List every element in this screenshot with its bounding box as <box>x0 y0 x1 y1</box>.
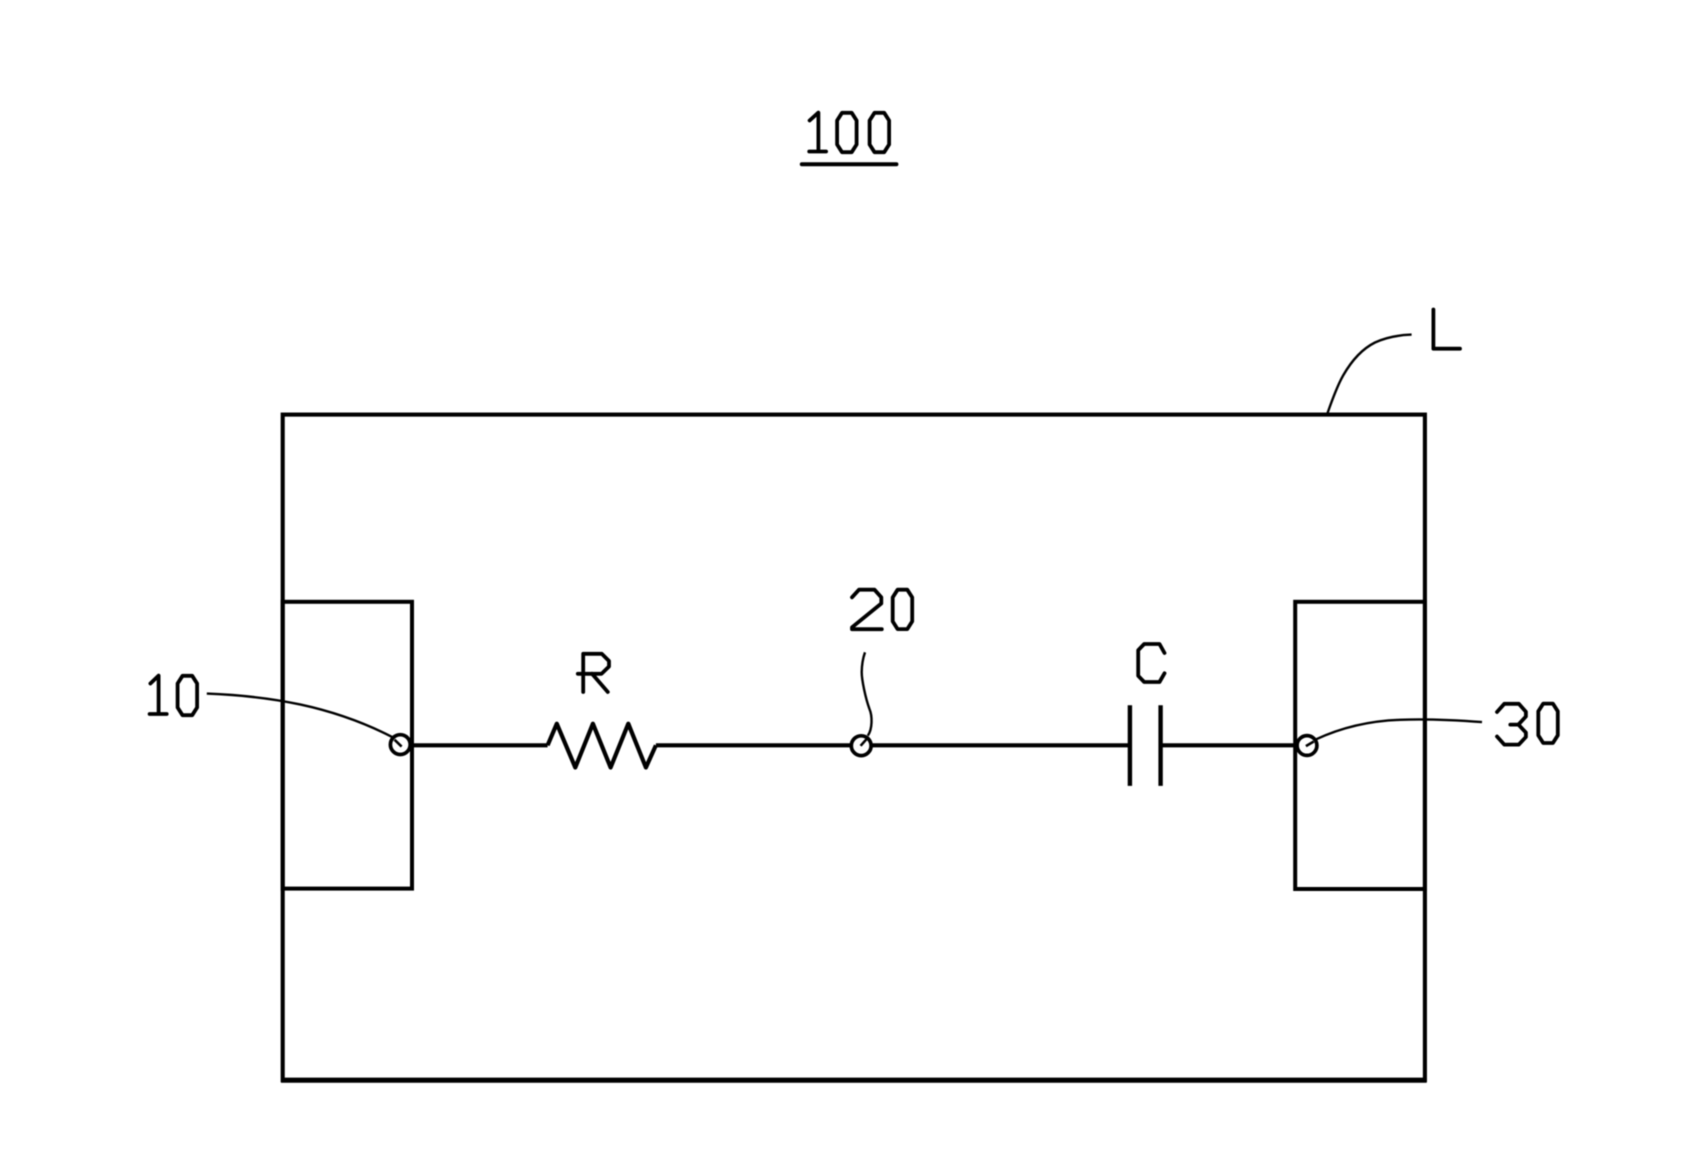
board outline L (outer rectangle) <box>283 415 1425 1081</box>
wire: node 20 to capacitor <box>872 743 1130 747</box>
wire: resistor to node 20 <box>656 743 850 747</box>
figure title 100 <box>809 113 889 153</box>
label 30 <box>1497 704 1558 745</box>
node 30 circle <box>1297 736 1317 756</box>
left electrode pad (node 10 region) <box>283 602 412 889</box>
label R <box>578 654 609 692</box>
right electrode pad (node 30 region) <box>1295 602 1425 889</box>
label 10 <box>150 676 198 716</box>
node 10 circle <box>390 735 410 755</box>
node 20 tick <box>861 739 867 746</box>
capacitor C right plate <box>1158 705 1162 786</box>
label L <box>1433 310 1460 349</box>
leader L <box>1327 335 1411 414</box>
label 20 <box>852 590 912 630</box>
wire: capacitor to node 30 <box>1161 743 1297 747</box>
label C <box>1138 644 1164 682</box>
wire: left node to resistor <box>411 743 548 747</box>
title underline <box>802 162 897 166</box>
node 20 circle <box>851 736 871 756</box>
board outline bottom edge <box>281 1078 1427 1083</box>
leader 30 <box>1316 719 1483 739</box>
leader 10 <box>207 694 393 738</box>
capacitor C left plate <box>1128 705 1132 786</box>
resistor R zigzag <box>548 724 656 768</box>
leader 20 <box>862 652 872 735</box>
node 30 tick <box>1306 742 1314 747</box>
node 10 tick <box>395 740 402 747</box>
